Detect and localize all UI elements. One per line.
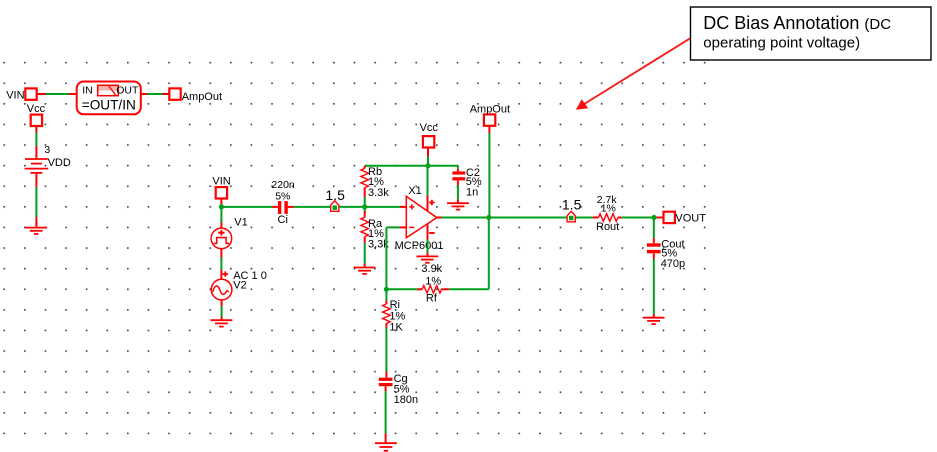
svg-text:1.5: 1.5 bbox=[325, 187, 345, 203]
svg-text:1n: 1n bbox=[466, 186, 478, 198]
svg-text:3.9k: 3.9k bbox=[421, 263, 442, 275]
marker 1.5 input bbox=[325, 187, 345, 211]
svg-text:VIN: VIN bbox=[6, 90, 24, 102]
ground Cout bbox=[643, 318, 665, 324]
meter block =OUT/IN bbox=[77, 82, 141, 115]
svg-text:V2: V2 bbox=[233, 280, 246, 292]
svg-text:Rf: Rf bbox=[426, 292, 438, 304]
resistor Ra 1% 3.3k bbox=[361, 207, 389, 267]
capacitor Cout 5% 470p bbox=[647, 238, 685, 317]
wire opamp V+ supply bbox=[427, 166, 429, 211]
junction Vcc rail bbox=[425, 163, 430, 168]
svg-text:VDD: VDD bbox=[48, 157, 71, 169]
wire Vcc rail bbox=[365, 166, 458, 172]
resistor Rb 1% 3.3k bbox=[361, 166, 389, 207]
junction Rout/VOUT/Cout bbox=[651, 215, 656, 220]
ground C2 bbox=[447, 203, 469, 209]
svg-text:DC Bias Annotation (DC: DC Bias Annotation (DC bbox=[703, 13, 891, 33]
svg-text:Rout: Rout bbox=[596, 221, 619, 233]
svg-text:operating point voltage): operating point voltage) bbox=[703, 35, 860, 52]
svg-text:VOUT: VOUT bbox=[675, 213, 706, 225]
resistor Ri 1% 1K bbox=[383, 289, 406, 377]
marker 1.5 output bbox=[562, 197, 582, 222]
wire node to Ci bbox=[221, 206, 278, 208]
port VOUT bbox=[664, 212, 707, 225]
svg-text:180n: 180n bbox=[394, 394, 418, 406]
wire VIN2 down to node bbox=[220, 199, 222, 207]
port Vcc amp bbox=[420, 122, 439, 147]
junction node Rb/Ra bbox=[362, 204, 367, 209]
junction node VIN/Ci bbox=[219, 204, 224, 209]
svg-text:AmpOut: AmpOut bbox=[182, 91, 222, 103]
ground battery bbox=[25, 228, 47, 234]
wire opamp output bbox=[437, 217, 593, 219]
resistor Rout 2.7k 1% bbox=[593, 194, 654, 233]
svg-text:1%: 1% bbox=[601, 203, 616, 215]
wire V2 to ground bbox=[221, 300, 223, 320]
wire Vcc port down bbox=[427, 148, 429, 166]
wire node down to V1 bbox=[220, 207, 222, 228]
annotation arrow bbox=[576, 38, 690, 109]
capacitor Cg 5% 180n bbox=[379, 373, 418, 443]
wire minus input to feedback node bbox=[386, 227, 406, 289]
ground V2 bbox=[211, 320, 233, 326]
port VIN bbox=[6, 88, 36, 101]
svg-text:X1: X1 bbox=[408, 185, 421, 197]
ground Cg bbox=[375, 443, 397, 451]
wire junction to VOUT bbox=[654, 217, 664, 219]
resistor Rf 3.9k 1% bbox=[386, 218, 488, 305]
svg-text:220n: 220n bbox=[271, 179, 295, 191]
svg-text:IN: IN bbox=[82, 84, 93, 96]
wire Vcc to battery bbox=[35, 126, 37, 159]
junction feedback node bbox=[384, 287, 389, 292]
svg-text:1.5: 1.5 bbox=[562, 197, 582, 213]
wire opamp V- supply bbox=[427, 224, 429, 256]
svg-text:1K: 1K bbox=[389, 321, 403, 333]
svg-text:AmpOut: AmpOut bbox=[470, 103, 510, 115]
op-amp X1 MCP6001 bbox=[395, 185, 444, 252]
svg-text:Ri: Ri bbox=[390, 299, 400, 311]
wire V1 to V2 bbox=[220, 249, 222, 280]
svg-text:470p: 470p bbox=[661, 258, 685, 270]
junction output/AmpOut/Rf bbox=[486, 215, 491, 220]
svg-text:=OUT/IN: =OUT/IN bbox=[82, 97, 136, 112]
wire VIN to block bbox=[37, 93, 77, 95]
svg-text:V1: V1 bbox=[234, 216, 247, 228]
battery VDD 3 bbox=[25, 144, 71, 173]
port Vcc bbox=[27, 103, 46, 126]
svg-text:Vcc: Vcc bbox=[420, 122, 439, 134]
capacitor Ci 220n 5% bbox=[271, 179, 295, 226]
svg-text:Ci: Ci bbox=[278, 214, 288, 226]
port AmpOut bbox=[169, 88, 222, 102]
source V2 AC 1 0 bbox=[211, 270, 267, 300]
svg-text:VIN: VIN bbox=[212, 176, 230, 188]
svg-text:5%: 5% bbox=[275, 191, 290, 203]
svg-text:1%: 1% bbox=[425, 275, 441, 287]
svg-text:3.3k: 3.3k bbox=[368, 187, 389, 199]
svg-text:Vcc: Vcc bbox=[27, 103, 46, 115]
wire block to AmpOut bbox=[141, 93, 170, 95]
port AmpOut top bbox=[470, 103, 510, 125]
svg-text:3: 3 bbox=[44, 144, 50, 156]
capacitor C2 5% 1n bbox=[452, 167, 482, 203]
annotation box DC Bias Annotation bbox=[691, 7, 932, 60]
port VIN middle bbox=[212, 176, 230, 199]
ground Ra bbox=[354, 268, 376, 274]
ground opamp bbox=[416, 256, 438, 262]
wire battery to ground bbox=[35, 173, 37, 228]
svg-text:MCP6001: MCP6001 bbox=[395, 240, 444, 252]
wire AmpOut down bbox=[488, 126, 490, 218]
source V1 bbox=[211, 216, 248, 248]
wire Ci to opamp plus input bbox=[288, 206, 407, 208]
wire Cout down bbox=[653, 218, 655, 244]
svg-text:OUT: OUT bbox=[116, 85, 139, 97]
